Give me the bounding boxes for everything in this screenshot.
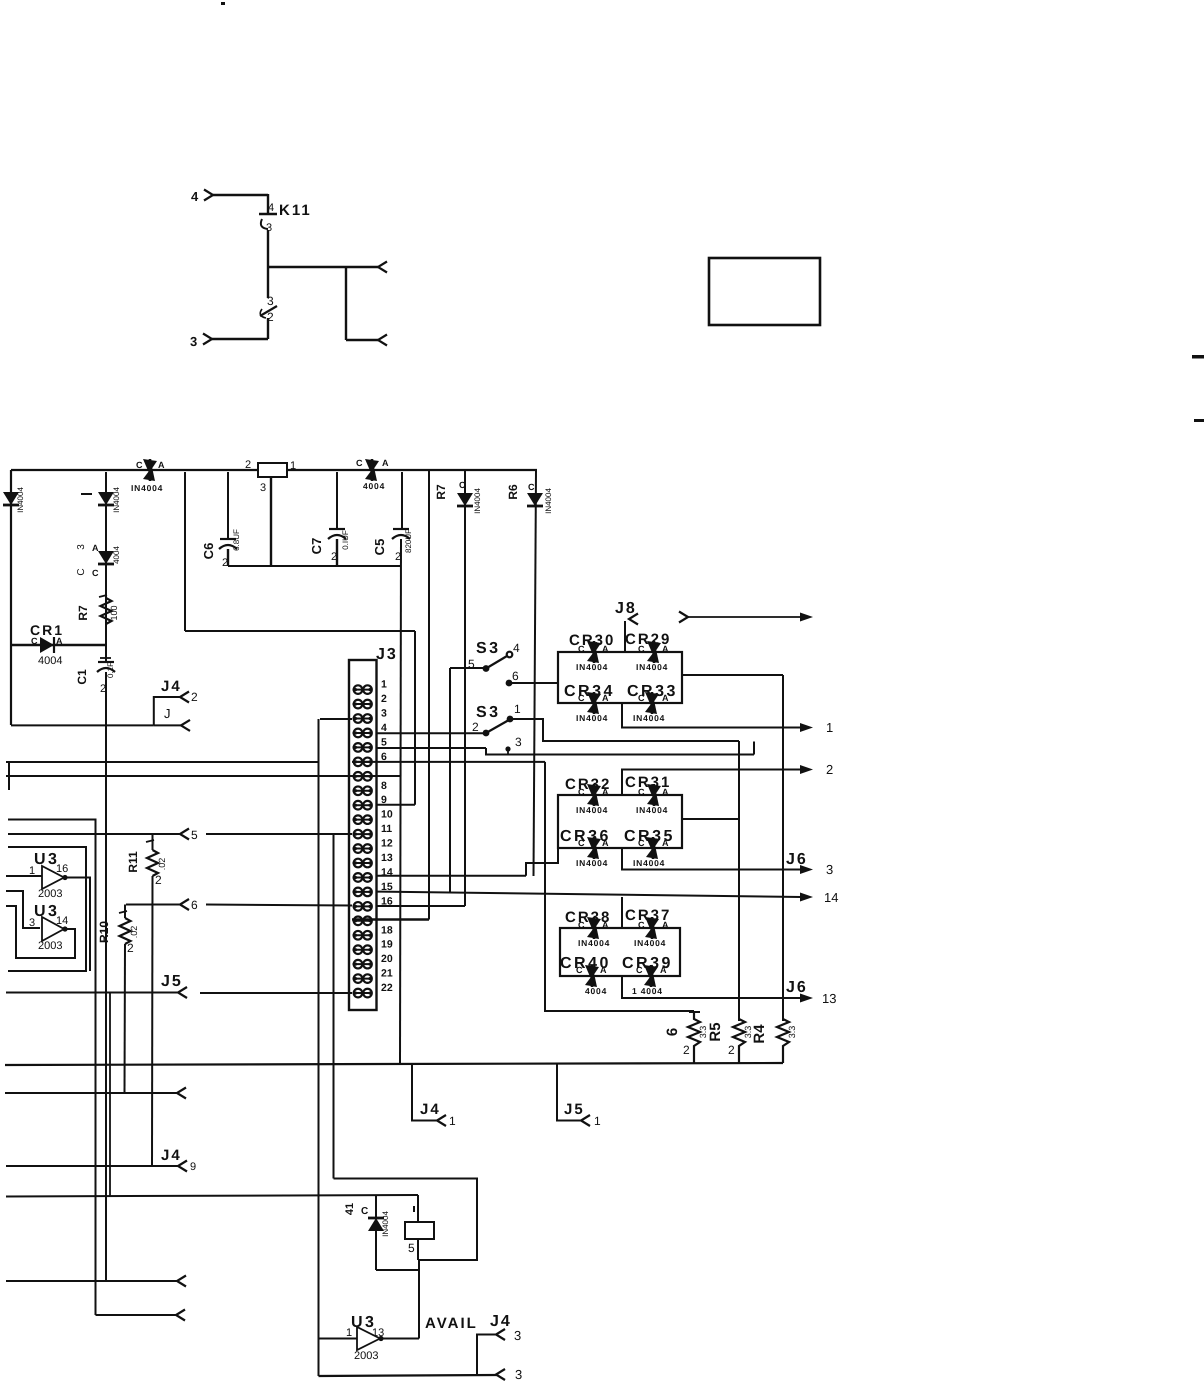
svg-text:C6: C6 [201,543,216,560]
wire row17 [352,918,429,920]
svg-text:IN4004: IN4004 [16,487,25,513]
svg-text:C: C [361,1206,368,1217]
svg-text:820UF: 820UF [404,529,413,553]
svg-text:IN4004: IN4004 [634,938,666,948]
svg-text:2: 2 [683,1043,690,1057]
diode CR7 line [464,470,466,906]
svg-text:C: C [578,787,585,797]
diode CR8 [506,482,553,514]
wire [267,318,269,339]
connector pin 3 arrow [203,334,212,345]
wire row9 [376,804,416,806]
svg-text:IN4004: IN4004 [576,662,608,672]
svg-text:8: 8 [381,780,387,792]
wire left stub [8,763,10,790]
relay K11 label [279,202,312,219]
svg-text:C: C [92,568,99,578]
svg-text:1: 1 [449,1114,456,1128]
diode CR33 [627,683,678,723]
svg-text:R4: R4 [751,1024,768,1044]
wire row3 [320,718,352,720]
connector J8 mate arrow [679,612,813,623]
wire coil top lead [417,1195,419,1222]
connector arrow [378,335,387,346]
connector arrow 6 [180,898,198,912]
diode CR41 branch [344,1196,390,1270]
svg-text:A: A [92,543,99,553]
svg-text:R11: R11 [126,851,140,873]
svg-text:2: 2 [826,762,833,777]
wire row4 [376,732,487,734]
wire mid bus [105,472,107,662]
wire J4 9 net [6,1165,178,1167]
wire pin1 route [513,719,739,741]
diode CR8 line [534,470,537,876]
resistor R4 [751,1019,797,1063]
svg-text:J6: J6 [786,979,808,996]
connector pin 4 arrow [204,190,213,201]
wire group3 bottom out [622,976,801,998]
connector J4 3b [496,1367,522,1382]
svg-text:A: A [382,458,389,468]
svg-text:IN4004: IN4004 [576,858,608,868]
resistor R10 [97,905,139,1094]
wire J5 net [6,992,178,994]
switch S3b [472,702,521,736]
wire U3b out loop [6,906,75,958]
wire [212,338,268,340]
svg-text:2003: 2003 [38,940,62,952]
svg-text:4004: 4004 [112,546,121,564]
svg-text:K11: K11 [279,202,312,219]
wire group3 top out [621,897,623,928]
svg-text:14: 14 [56,915,68,927]
wire x333 [333,834,335,1179]
connector pin 4 label [191,189,199,204]
svg-text:4004: 4004 [38,655,62,667]
wire row11 left [8,833,180,835]
wire U3c output [383,1338,419,1340]
diode CR3 [131,459,165,493]
svg-text:C: C [578,644,585,654]
svg-text:C7: C7 [309,538,324,555]
svg-text:5: 5 [408,1241,415,1255]
svg-text:A: A [602,920,609,930]
svg-text:A: A [600,965,607,975]
wire [336,539,338,566]
node K11 common [268,266,378,268]
svg-text:100: 100 [109,605,119,620]
svg-text:0.1F: 0.1F [106,662,115,678]
wire [449,668,451,892]
capacitor C5 [372,529,413,563]
svg-text:C: C [638,644,645,654]
svg-text:IN4004: IN4004 [112,487,121,513]
label CC [76,568,99,578]
wire [267,230,269,298]
speck [1192,355,1204,359]
svg-text:20: 20 [381,953,393,965]
svg-text:IN4004: IN4004 [633,713,665,723]
svg-text:6.8UF: 6.8UF [232,529,241,551]
switch S3a [468,640,520,672]
wire J4 net [11,724,154,726]
svg-text:J5: J5 [161,973,183,990]
svg-text:C: C [136,460,143,470]
label AVAIL [425,1315,478,1332]
connector J6 label b [786,979,808,996]
svg-text:4: 4 [381,722,387,734]
svg-text:13: 13 [822,991,836,1006]
diode CR31 [625,774,671,815]
svg-text:4: 4 [191,189,199,204]
svg-text:41: 41 [344,1203,356,1215]
svg-text:J3: J3 [376,646,398,663]
diode CR36 [560,828,611,868]
svg-text:3.3: 3.3 [787,1026,797,1039]
capacitor C1 [75,658,115,695]
svg-text:1: 1 [514,702,521,716]
svg-text:9: 9 [190,1161,196,1173]
wire diode bottom rail [376,1269,419,1271]
connector arrow 3 [800,862,833,877]
wire row14 jog [526,848,558,876]
svg-text:C1: C1 [75,669,89,685]
svg-text:IN4004: IN4004 [576,713,608,723]
svg-text:1: 1 [826,720,833,735]
svg-text:2: 2 [155,873,162,887]
connector J5 pin1 [557,1064,601,1129]
svg-text:2003: 2003 [38,888,62,900]
wire row6 left [6,761,318,763]
wire row6 right [352,761,545,763]
speck2 [1194,419,1204,422]
svg-text:IN4004: IN4004 [578,938,610,948]
svg-text:4004: 4004 [363,481,385,491]
svg-text:11: 11 [381,823,392,835]
diode CR38 [565,909,611,948]
wire row16 R10 corner [126,904,180,906]
diode CR7 [434,480,482,514]
svg-text:IN4004: IN4004 [576,805,608,815]
wire loop top [334,1179,478,1261]
wire long 1064 [5,1063,783,1065]
svg-text:AVAIL: AVAIL [425,1315,478,1332]
wire x419 [418,1260,420,1339]
svg-text:IN4004: IN4004 [131,483,163,493]
wire x783 feeder [782,675,784,1021]
diode CR2 [3,487,25,513]
diode CR29 [625,631,671,672]
svg-text:C: C [638,693,645,703]
wire [184,472,186,631]
wire 1315 net [96,1310,186,1321]
diode CR34 [564,683,615,723]
svg-text:C: C [578,693,585,703]
resistor R7 [76,595,119,624]
svg-text:22: 22 [381,982,393,994]
svg-text:J4: J4 [490,1313,512,1330]
svg-text:2: 2 [472,720,479,734]
svg-text:A: A [602,838,609,848]
svg-text:2003: 2003 [354,1350,378,1362]
wire row7 [6,775,400,777]
connector J4 3a [477,1313,521,1375]
wire group2 right stub [682,818,739,820]
svg-text:10: 10 [381,809,393,821]
svg-text:3: 3 [515,1367,522,1382]
svg-text:3: 3 [826,862,833,877]
svg-text:C: C [576,965,583,975]
wire row15 to arrow 14 [376,892,802,897]
wire row14 [376,875,527,877]
svg-text:2: 2 [728,1043,735,1057]
connector J5 arrow [161,973,187,998]
svg-text:A: A [662,787,669,797]
wire [345,267,347,340]
svg-text:1 4004: 1 4004 [632,986,663,996]
wire [105,672,107,1281]
wire U3c input [319,1338,358,1340]
svg-text:.02: .02 [157,858,167,871]
node S3b pin 3 [505,735,522,755]
svg-text:C: C [356,458,363,468]
wire [213,194,268,196]
wire left bus [10,470,12,725]
svg-text:3: 3 [381,708,387,720]
page speck [221,2,225,5]
diode CR4 [356,458,389,491]
svg-text:C: C [638,920,645,930]
wire group1 right stub [682,674,783,676]
wire U3a out loop [65,878,90,972]
wire row16 right [376,905,466,907]
relay K11 contact pin 4 [259,202,277,234]
svg-text:IN4004: IN4004 [381,1211,390,1237]
wire row11 right [206,833,352,835]
wire [185,630,415,632]
pin 1 dash [81,493,92,495]
svg-text:3: 3 [76,544,87,550]
svg-text:J4: J4 [420,1101,441,1118]
wire [227,472,229,539]
node S3a pin 6 [506,669,558,686]
svg-text:3: 3 [515,735,522,749]
wire [428,470,430,920]
connector J8 [615,600,638,652]
wire [346,339,378,341]
svg-text:2: 2 [127,941,134,955]
svg-text:2: 2 [191,690,198,704]
diode CR32 [565,776,611,815]
connector J3 [349,646,398,1010]
svg-text:R7: R7 [76,605,90,621]
gate U3b [29,903,68,952]
diode CR1 [11,622,106,667]
svg-text:C: C [636,965,643,975]
svg-text:.02: .02 [129,926,139,939]
diode CR39 [622,955,673,996]
svg-text:21: 21 [381,968,393,980]
svg-text:A: A [662,693,669,703]
wire x545 feeder [545,762,694,1011]
wire row16 left [206,905,352,906]
svg-text:6: 6 [191,898,198,912]
diode CR35 [624,828,675,868]
svg-text:3: 3 [190,334,197,349]
wire coil bottom lead [417,1239,419,1260]
resistor R5 [707,1019,753,1063]
svg-text:5: 5 [381,736,387,748]
wire group1 bottom out [622,703,801,728]
capacitor C6 [201,529,241,569]
wire [450,667,486,669]
rect group2 [558,795,682,848]
svg-text:3: 3 [514,1328,521,1343]
wire row22 right [200,992,352,994]
svg-text:A: A [602,693,609,703]
wire row5 [376,747,487,749]
svg-text:12: 12 [381,838,393,850]
svg-text:3: 3 [260,482,266,494]
svg-text:4004: 4004 [585,986,607,996]
wire 819 net [8,820,96,1316]
connector arrow 2 [800,762,833,777]
svg-text:C: C [638,787,645,797]
wire caps rail [228,565,400,567]
resistor R11 [126,834,167,1166]
connector pin 3 label [190,334,197,349]
gate U3c [346,1314,384,1362]
diode CR37 [625,907,671,948]
svg-text:0.IUF: 0.IUF [341,530,350,550]
svg-text:6: 6 [512,669,519,683]
svg-text:IN4004: IN4004 [544,488,553,514]
svg-text:14: 14 [824,890,838,905]
connector J4 pin1 [412,1064,456,1129]
svg-text:3: 3 [267,294,274,308]
svg-text:J4: J4 [161,1147,182,1164]
box outline [709,258,820,325]
svg-text:6: 6 [664,1028,681,1036]
svg-text:C: C [578,838,585,848]
connector J4 top [154,678,198,731]
connector J6 pin 14 arrow [800,890,838,905]
connector arrow 1 [800,720,833,735]
relay K11 contact pins 3-2 [260,294,277,324]
wire pin3 net [486,742,754,755]
svg-text:C: C [578,920,585,930]
svg-text:A: A [602,787,609,797]
wire hook outer [8,847,86,971]
connector arrow 5 [180,828,198,842]
wire bottom rail [319,1375,498,1376]
svg-text:R7: R7 [434,484,448,500]
svg-text:IN4004: IN4004 [636,662,668,672]
capacitor C7 [309,529,350,563]
svg-text:IN4004: IN4004 [633,858,665,868]
wire x320 [318,719,320,1376]
diode CR40 [560,955,611,996]
wire [270,477,272,566]
svg-text:J5: J5 [564,1101,585,1118]
svg-text:3: 3 [29,917,35,929]
svg-text:J: J [164,706,171,721]
gate U3a [29,851,68,900]
svg-text:IN4004: IN4004 [473,488,482,514]
svg-text:R5: R5 [707,1022,724,1041]
svg-text:C: C [459,480,466,490]
wire [336,472,338,529]
wire 1281 net [6,1276,186,1287]
wire 1196 net [6,1195,418,1197]
svg-text:C5: C5 [372,539,387,556]
svg-text:1: 1 [290,460,296,472]
resistor R6b [664,1012,708,1063]
wire x110 [109,993,111,1196]
diode CR6a [98,546,121,564]
svg-text:19: 19 [381,939,393,951]
connector arrow 13 [800,991,836,1006]
wire [227,549,229,566]
svg-text:4: 4 [513,641,520,655]
svg-text:C: C [76,568,87,575]
connector J6 label [786,851,808,868]
svg-text:A: A [662,920,669,930]
svg-text:1: 1 [381,679,387,691]
wire U3a input [6,875,42,877]
wire group2 bottom out [622,848,801,870]
svg-text:S3: S3 [476,640,501,657]
wire group2 top out [622,770,801,796]
svg-text:J6: J6 [786,851,808,868]
diode CR5 [98,487,121,513]
svg-text:J8: J8 [615,600,637,617]
rect group1 [558,652,682,703]
svg-text:A: A [660,965,667,975]
wire [267,194,269,213]
svg-text:16: 16 [56,863,68,875]
svg-text:C: C [528,482,535,492]
wire [400,539,401,1063]
svg-text:4: 4 [268,202,274,214]
connector J4 9 [161,1147,196,1173]
wire [401,472,403,529]
connector arrow [378,262,387,273]
svg-text:13: 13 [381,852,393,864]
wire x739 feeder [738,741,740,1021]
relay coil K1 [245,459,296,494]
svg-text:18: 18 [381,924,393,936]
svg-text:2: 2 [245,459,251,471]
svg-text:1: 1 [594,1114,601,1128]
wire W1 feed [6,891,40,928]
svg-text:A: A [158,460,165,470]
wire 1093 net [5,1088,186,1099]
svg-text:J4: J4 [161,678,182,695]
rect group3 [560,928,680,976]
wire x415 [414,631,416,805]
svg-text:5: 5 [191,828,198,842]
label 3A [76,543,99,553]
svg-text:A: A [662,644,669,654]
svg-text:A: A [662,838,669,848]
svg-text:R6: R6 [506,484,520,500]
svg-text:A: A [602,644,609,654]
svg-text:2: 2 [381,693,387,705]
svg-text:C: C [638,838,645,848]
svg-text:1: 1 [346,1327,352,1339]
